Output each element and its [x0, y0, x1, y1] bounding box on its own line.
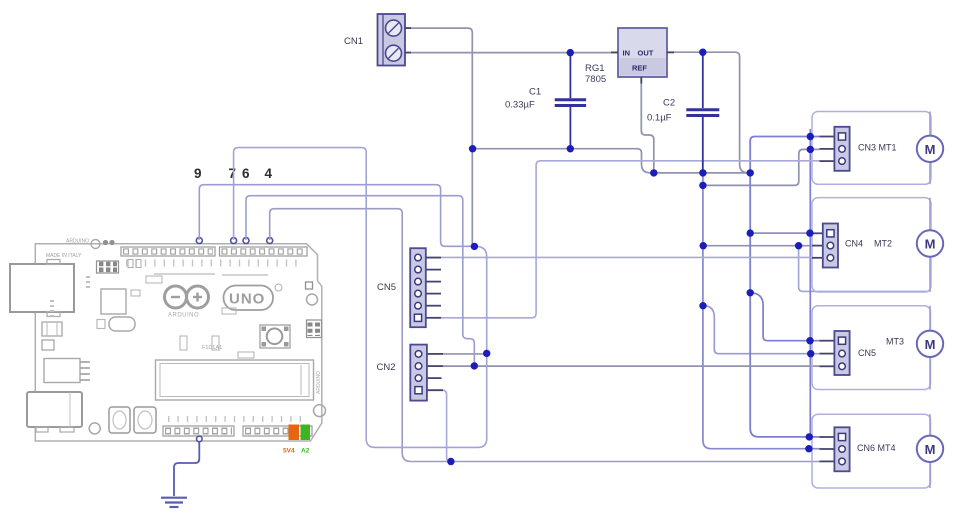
wire branch to CN4 square pin	[750, 232, 812, 234]
svg-text:6: 6	[242, 166, 250, 181]
wire CN2 pin4 to bottom rail	[428, 390, 451, 461]
junction MT2 return branch	[795, 242, 802, 249]
svg-text:CN5: CN5	[858, 348, 876, 358]
svg-text:F1D1A1: F1D1A1	[202, 345, 222, 351]
capacitor C2	[686, 52, 719, 173]
pin 6 terminal circle	[243, 238, 249, 244]
block MT3 outline	[812, 306, 931, 390]
svg-text:ARDUINO: ARDUINO	[168, 313, 199, 319]
motor MT3 leads	[929, 306, 931, 390]
wire pin 6 net	[246, 196, 474, 366]
connector CN2 (middle 4-pin)	[410, 345, 443, 401]
svg-text:CN5: CN5	[377, 282, 396, 293]
svg-text:UNO: UNO	[229, 291, 265, 308]
svg-text:M: M	[925, 337, 936, 352]
motor MT3	[917, 331, 943, 357]
regulator RG1 7805	[618, 28, 667, 77]
junction CN4 square branch	[747, 229, 754, 236]
motor MT1 leads	[929, 112, 931, 185]
wire ground from Arduino	[174, 442, 199, 496]
junction bottom rail	[447, 458, 454, 465]
junction MT3 pin2 branch	[699, 302, 706, 309]
svg-text:4: 4	[265, 166, 273, 181]
svg-text:ARDUINO: ARDUINO	[66, 239, 89, 245]
svg-text:IN: IN	[623, 49, 631, 58]
svg-text:C2: C2	[663, 98, 675, 109]
wire CN2 pin2 to MT3 pin3	[428, 365, 820, 367]
junction CN2 pin2	[471, 362, 478, 369]
svg-text:C1: C1	[529, 87, 541, 98]
highlighted pin A2 (green)	[301, 425, 311, 441]
wire ground rail y148	[473, 149, 654, 173]
junction gnd node top	[471, 243, 478, 250]
motor MT1	[917, 136, 943, 162]
connector CN3	[820, 127, 850, 171]
svg-text:MADE IN ITALY: MADE IN ITALY	[46, 253, 82, 259]
wire ground rail y173	[654, 172, 750, 174]
svg-text:0.1µF: 0.1µF	[647, 113, 672, 124]
junction CN3 pin2	[807, 146, 814, 153]
junction C1 top	[567, 49, 574, 56]
svg-text:REF: REF	[632, 64, 647, 73]
svg-text:M: M	[925, 237, 936, 252]
junction C1 bottom	[567, 145, 574, 152]
wire CN1 pin1 to ground node column	[405, 28, 474, 246]
motor MT4 leads	[929, 414, 931, 488]
wire pin 7 net bottom loop	[234, 148, 487, 448]
wire 7805 REF down	[641, 77, 654, 173]
capacitor C1	[555, 53, 586, 149]
svg-text:M: M	[925, 442, 936, 457]
wire vertical bus x810	[809, 129, 811, 437]
junction OUT / blue bus	[747, 169, 754, 176]
wire pin 4 net to bottom rail	[270, 209, 820, 462]
block MT1 outline	[812, 112, 931, 185]
junction CN1 gnd / rail	[469, 145, 476, 152]
svg-text:OUT: OUT	[638, 49, 654, 58]
junction REF rail	[650, 169, 657, 176]
Arduino UNO board A1	[10, 239, 326, 442]
motor MT2 leads	[929, 198, 931, 292]
svg-text:M: M	[925, 142, 936, 157]
svg-text:CN3 MT1: CN3 MT1	[858, 143, 897, 153]
ground pin terminal circle	[197, 436, 203, 442]
junction MT3 square branch	[747, 289, 754, 296]
svg-text:RG1: RG1	[585, 63, 605, 74]
svg-text:MT2: MT2	[874, 239, 892, 249]
wire CN5 pin1 to CN4 pin3	[426, 256, 812, 258]
highlighted pin 5V (orange)	[289, 425, 300, 441]
svg-text:7805: 7805	[585, 74, 606, 85]
junction C2 top	[699, 49, 706, 56]
junction CN6 square pin	[806, 433, 813, 440]
svg-text:CN1: CN1	[344, 36, 363, 47]
connector CN6	[820, 427, 850, 471]
junction y185 branch	[699, 182, 706, 189]
wire vertical bus x703 to motor pin2 feeds	[703, 173, 820, 449]
motor MT4	[917, 436, 943, 462]
svg-text:5V4: 5V4	[283, 448, 295, 455]
svg-text:A2: A2	[301, 448, 310, 455]
connector CN5 (motor 3)	[820, 331, 850, 375]
svg-text:7: 7	[229, 166, 237, 181]
junction CN4 pin2 branch	[700, 242, 707, 249]
block MT4 outline	[812, 414, 931, 488]
svg-text:0.33µF: 0.33µF	[505, 100, 535, 111]
block MT2 outline	[812, 198, 931, 292]
wire CN2 pin1 to ground riser	[428, 353, 487, 355]
wire branch to MT3 connector pin2	[703, 306, 820, 354]
motor MT2	[917, 230, 943, 256]
wire branch y185 to CN3 pin2	[703, 149, 820, 185]
junction MT3 square pin	[806, 337, 813, 344]
connector CN1	[378, 14, 406, 66]
connector CN4	[812, 224, 838, 268]
svg-text:CN2: CN2	[377, 362, 396, 373]
wire 7805 OUT down to node	[667, 52, 750, 173]
wire branch to MT3 square pin	[750, 293, 819, 341]
ground symbol	[161, 498, 187, 507]
svg-text:CN4: CN4	[845, 239, 863, 249]
svg-text:MT3: MT3	[886, 337, 904, 347]
svg-text:9: 9	[194, 166, 202, 181]
wire branch y246 to CN4 pin2	[703, 245, 812, 247]
junction CN2 pin1 riser	[483, 350, 490, 357]
wire CN5 square pin to CN3 pin3	[434, 161, 820, 318]
junction CN3 pin1	[807, 133, 814, 140]
pin 9 terminal circle	[196, 238, 202, 244]
junction CN4 square pin	[806, 229, 813, 236]
junction CN6 pin2	[805, 445, 812, 452]
wire CN1 pin2 to 7805 IN	[405, 52, 618, 54]
wire branch down from node to MT2 motor return	[799, 246, 928, 292]
pin 4 terminal circle	[267, 238, 273, 244]
svg-text:ARDUINO: ARDUINO	[316, 371, 322, 394]
pin 7 terminal circle	[231, 238, 237, 244]
junction MT3 pin2	[807, 350, 814, 357]
wire blue 5V bus x750 to square pins	[750, 137, 819, 437]
junction C2 bottom	[699, 169, 706, 176]
RG1 pin stubs	[405, 28, 674, 83]
connector CN5 (middle 6-pin)	[410, 248, 441, 327]
svg-text:CN6 MT4: CN6 MT4	[857, 443, 896, 453]
wire pin 9 net	[199, 185, 474, 247]
